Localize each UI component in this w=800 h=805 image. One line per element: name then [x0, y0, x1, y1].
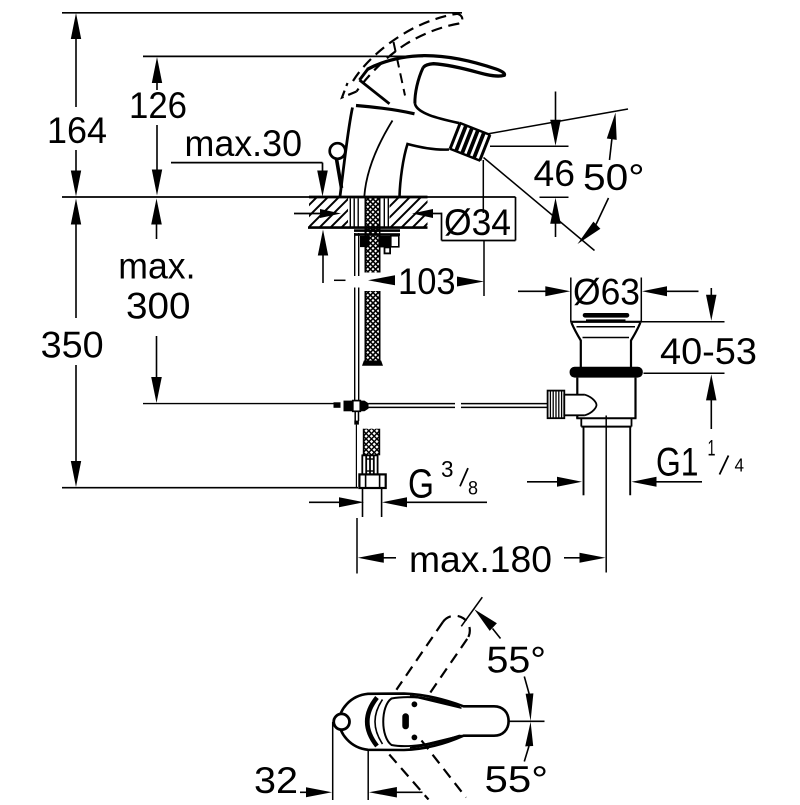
aerator outlet plane line (46 upper tick) — [490, 145, 569, 147]
drain tailpipe — [584, 427, 631, 496]
reference line: pop-up rod level (max.300 datum) — [143, 403, 334, 405]
max.180 dimension line with arrows — [357, 518, 606, 574]
40-53 dimension with arrows — [642, 288, 725, 429]
lever at 55 deg (dashed, lower) — [389, 741, 466, 800]
threaded shank bottom flare — [362, 361, 383, 366]
faucet lever top and tip — [367, 56, 504, 77]
G3/8 hex nut — [359, 474, 385, 488]
reference line: hose end (350 datum) — [62, 487, 358, 489]
faucet body top ledge — [356, 106, 415, 114]
top view spout sliver upper — [410, 696, 462, 708]
label G 3/8 — [408, 456, 478, 507]
svg-text:G1: G1 — [656, 441, 699, 485]
drain flange body — [570, 322, 641, 367]
svg-text:55°: 55° — [485, 759, 549, 800]
G1 1/4 dimension arrows — [527, 477, 702, 487]
dimension 164 vertical line with arrows — [71, 13, 81, 197]
counter deck cross-section with hatching — [282, 190, 472, 232]
top view lever dot upper — [412, 701, 418, 707]
46 lower tick — [540, 196, 569, 198]
dimension 350 vertical line with arrows — [71, 199, 81, 488]
reference line: top of raised lever (164 datum) — [62, 12, 462, 14]
svg-text:Ø63: Ø63 — [573, 272, 640, 313]
svg-text:40-53: 40-53 — [660, 331, 757, 372]
svg-text:300: 300 — [126, 285, 191, 326]
max.300 lower arrow — [151, 336, 162, 403]
svg-text:32: 32 — [254, 760, 298, 800]
svg-text:126: 126 — [129, 85, 187, 126]
drain pull rod / center line — [605, 416, 607, 573]
pop-up pull rod — [355, 233, 359, 401]
aerator axis ray (50 deg upper leg) — [487, 109, 628, 134]
svg-text:50°: 50° — [583, 157, 645, 198]
lever pivot internal line (dashed) — [394, 42, 406, 96]
50 deg lower arrow — [578, 198, 609, 244]
pop-up rod knob stem — [337, 159, 342, 188]
top view cartridge arc (thin) — [375, 700, 383, 745]
svg-text:55°: 55° — [487, 640, 547, 681]
faucet body left edge — [340, 108, 353, 197]
faucet neck right edge — [415, 67, 423, 103]
svg-text:Ø34: Ø34 — [444, 202, 511, 243]
top view cartridge dome arc (thick) — [367, 698, 377, 747]
pop-up rod knob — [330, 143, 346, 159]
raised lever at 55 deg (dashed, upper) — [396, 616, 469, 699]
aerator projection line — [482, 160, 484, 213]
svg-text:164: 164 — [47, 110, 107, 151]
aerator ribbed barrel — [450, 123, 491, 161]
svg-text:max.: max. — [118, 246, 195, 287]
max.30 up arrow to deck bottom — [318, 230, 328, 284]
raised lever tip (dashed) — [458, 14, 463, 24]
reference line: counter deck surface left extension — [62, 196, 310, 198]
svg-text:46: 46 — [534, 153, 576, 194]
50 deg upper arrow — [607, 113, 617, 161]
faucet handle front wedge — [360, 70, 368, 81]
drain valve body — [576, 378, 636, 427]
G3/8 dimension arrows — [309, 497, 487, 507]
drain side knob (knurled) — [548, 391, 597, 419]
svg-text:103: 103 — [398, 261, 456, 302]
horizontal pop-up rod to drain — [369, 404, 548, 408]
svg-text:3: 3 — [441, 456, 454, 482]
dimension 46 vertical line with arrows — [550, 92, 561, 238]
shank sleeve lines in deck hole — [350, 199, 388, 228]
max.30 leader with down arrow to deck top — [171, 163, 328, 197]
label G1 1/4 — [656, 436, 744, 485]
threaded shank (cross-hatched) — [364, 148, 382, 390]
top view lever dot lower — [412, 735, 418, 741]
dimension 126 vertical line with arrows — [152, 57, 162, 196]
raised lever butt (dashed) — [342, 83, 357, 98]
55 deg center line with thin arrows — [509, 677, 545, 762]
svg-text:max.180: max.180 — [409, 539, 552, 580]
faucet spout top edge — [415, 104, 460, 124]
drain plug dome — [585, 315, 627, 320]
top view spout sliver lower — [410, 735, 462, 748]
raised lever top edge (dashed) — [353, 14, 458, 81]
drain O-ring — [570, 367, 643, 378]
hose end tails — [363, 488, 382, 517]
Ø34 dimension arrows and label box — [294, 197, 516, 241]
max.300 upper arrow — [151, 199, 162, 240]
50 deg lower leg diagonal — [484, 158, 595, 251]
dimension 103 arrows and extension line — [334, 241, 484, 297]
top view pop-up knob circle — [334, 714, 350, 730]
mounting washer and fixing nut — [354, 229, 400, 253]
top view body outline — [339, 694, 508, 750]
top view lever logo mark — [402, 713, 409, 729]
svg-text:max.30: max.30 — [185, 123, 303, 164]
hose fitting — [362, 455, 379, 474]
faucet cap front slope — [360, 80, 390, 104]
faucet spout underside — [400, 144, 450, 197]
Ø63 dimension arrows and extension lines — [518, 278, 699, 322]
pop-up linkage clevis — [334, 401, 369, 487]
faucet body inner contour — [364, 121, 392, 197]
svg-text:4: 4 — [735, 456, 745, 476]
raised lever bottom edge (dashed) — [357, 24, 460, 92]
dimension 32 with arrows and extension lines — [300, 722, 423, 800]
svg-text:350: 350 — [41, 324, 104, 365]
top view lever outline — [383, 697, 460, 746]
55 deg upper extension line and arrow — [461, 597, 500, 638]
svg-text:8: 8 — [468, 479, 478, 500]
braided hose segment — [362, 408, 381, 503]
reference line: top of lever (126 datum) — [143, 55, 423, 57]
svg-text:1: 1 — [708, 436, 716, 461]
svg-text:G: G — [408, 461, 434, 507]
